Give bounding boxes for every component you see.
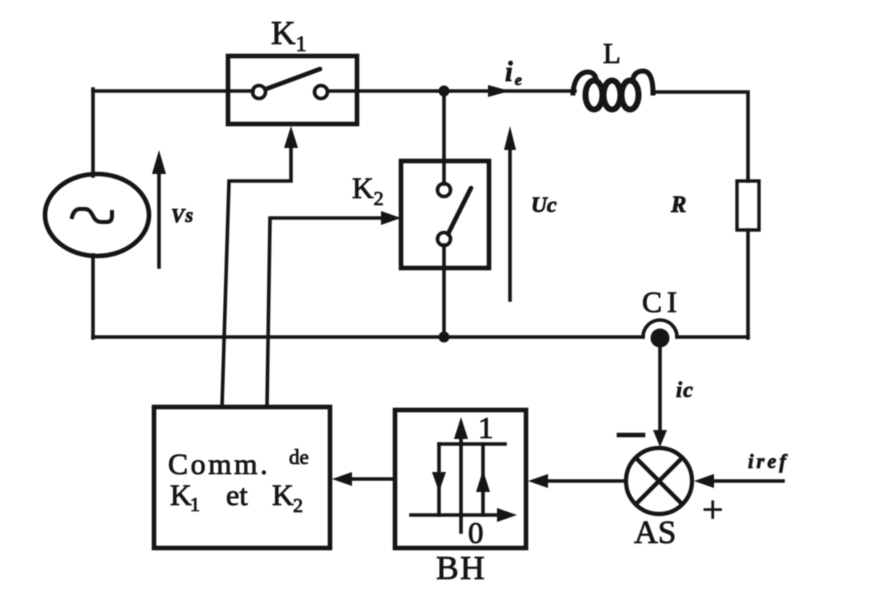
- switch K1 right contact: [315, 86, 328, 99]
- BH hysteresis top segment: [439, 442, 505, 446]
- switch K2 lever: [448, 188, 471, 234]
- wire bottom rail left segment: [93, 335, 643, 339]
- summer AS circle: [626, 448, 692, 514]
- control block Comm box: [154, 407, 330, 548]
- BH horizontal axis: [411, 513, 500, 517]
- svg-text:Vs: Vs: [171, 205, 194, 227]
- svg-text:R: R: [670, 192, 686, 217]
- svg-text:ic: ic: [676, 377, 694, 402]
- svg-text:AS: AS: [634, 515, 676, 551]
- control wire 1 (Comm to K1): [222, 146, 291, 407]
- svg-text:K2: K2: [352, 172, 384, 210]
- svg-text:K1etK2: K1etK2: [170, 479, 303, 517]
- arrow Uc (voltage arrow): [508, 148, 512, 300]
- svg-text:Uc: Uc: [531, 192, 557, 217]
- wire AS to BH: [544, 479, 624, 483]
- BH hysteresis left branch with down arrow: [437, 444, 441, 515]
- switch K2 top contact: [438, 184, 451, 197]
- resistor R: [737, 181, 759, 230]
- wire left vertical upper (corner to source top): [91, 89, 95, 176]
- wire BH to Comm block: [348, 477, 395, 481]
- svg-text:L: L: [603, 38, 621, 70]
- svg-text:K1: K1: [271, 15, 307, 56]
- wire K2 branch lower (K2 box to bottom rail): [442, 245, 446, 338]
- label minus sign: [619, 433, 643, 438]
- switch K2 box: [401, 161, 489, 268]
- wire top rail junction to inductor: [444, 89, 575, 93]
- svg-text:de: de: [289, 445, 309, 469]
- svg-text:Comm.: Comm.: [168, 448, 270, 481]
- BH hysteresis right branch with up arrow: [481, 444, 485, 515]
- node junction dot top (top rail / K2 branch): [439, 86, 450, 97]
- summer AS cross X: [636, 458, 682, 504]
- wire K2 branch upper (junction to K2 box): [442, 91, 446, 184]
- switch K1 left contact: [253, 86, 266, 99]
- svg-text:1: 1: [478, 410, 494, 445]
- arrow Vs (voltage arrow): [157, 172, 161, 267]
- node junction dot bottom (K2 branch / bottom rail): [439, 332, 450, 343]
- wire top-left horizontal (source to K1): [93, 89, 253, 93]
- svg-text:CI: CI: [642, 286, 682, 319]
- switch K1 box: [228, 56, 357, 124]
- source Vs (AC source circle): [45, 174, 149, 256]
- wire iref input: [708, 479, 783, 483]
- svg-text:ie: ie: [505, 57, 522, 89]
- inductor L coil: [573, 72, 596, 93]
- wire inductor to top-right corner and down: [653, 92, 748, 181]
- BH vertical axis: [459, 435, 463, 532]
- wire K1 right contact to junction node: [328, 89, 444, 93]
- svg-text:0: 0: [468, 515, 484, 550]
- sine symbol inside source: [72, 209, 112, 222]
- arrow ic (sensor output down to summer): [658, 339, 662, 434]
- svg-text:+: +: [702, 489, 723, 531]
- wire bottom rail right segment: [677, 335, 748, 339]
- control wire 2 (Comm to K2): [267, 218, 386, 407]
- svg-text:BH: BH: [436, 550, 486, 587]
- current arrow ie on top rail: [488, 85, 510, 97]
- wire resistor bottom to bottom rail: [746, 230, 750, 338]
- current sensor CI bump: [643, 320, 677, 337]
- current sensor CI dot: [651, 329, 670, 348]
- switch K1 lever: [266, 69, 320, 89]
- wire left vertical lower (source bottom to bottom rail): [91, 255, 95, 338]
- svg-text:iref: iref: [748, 451, 789, 473]
- switch K2 bottom contact: [438, 233, 451, 246]
- hysteresis block BH box: [395, 410, 526, 548]
